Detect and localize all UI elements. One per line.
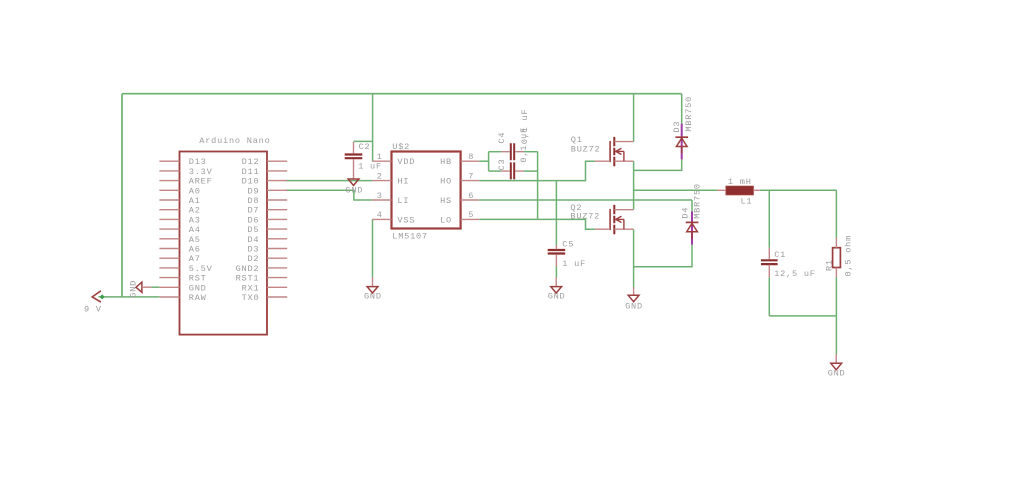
- pin 6 HS stub: [461, 199, 480, 201]
- wire L1 to output node: [760, 189, 837, 191]
- pin 4 VSS stub: [372, 218, 391, 220]
- capacitor C2: [345, 142, 363, 179]
- pin 1 VDD stub: [372, 160, 391, 162]
- svg-text:7: 7: [468, 171, 474, 181]
- svg-text:D3: D3: [672, 121, 682, 133]
- wire 9V top rail: [122, 93, 682, 95]
- wire D10 to HI: [285, 180, 372, 182]
- wire HS net: [479, 199, 692, 201]
- svg-text:0,5 ohm: 0,5 ohm: [844, 235, 854, 277]
- wire D3 cathode drop: [681, 94, 683, 124]
- wire Q1 drain from rail: [633, 94, 635, 142]
- svg-text:VDD: VDD: [397, 157, 415, 167]
- wire Q1 source to Q2 drain: [633, 161, 635, 210]
- wire C4 left lead: [489, 151, 502, 153]
- svg-text:HO: HO: [440, 177, 452, 187]
- pin 7 HO stub: [461, 180, 480, 182]
- wire VDD drop from rail: [372, 94, 374, 162]
- pin 3 LI stub: [372, 199, 391, 201]
- wire LO net to Q2 gate: [479, 219, 595, 229]
- wire switch node to L1: [634, 189, 718, 191]
- wire bootstrap cap left vertical: [488, 152, 490, 171]
- ground below VSS pin: [367, 277, 378, 293]
- wire C3 left lead: [489, 170, 502, 172]
- svg-text:1: 1: [377, 152, 383, 162]
- svg-text:GND: GND: [828, 368, 846, 378]
- wire D9 to LI jog: [285, 190, 372, 200]
- svg-text:9 V: 9 V: [84, 305, 102, 315]
- svg-text:12,5 uF: 12,5 uF: [774, 269, 816, 279]
- svg-text:1 mH: 1 mH: [728, 177, 752, 187]
- wire R1 top branch: [835, 190, 837, 238]
- wire D4 anode link: [634, 245, 692, 267]
- inductor L1: [717, 186, 760, 195]
- wire C5 branch vertical: [555, 181, 557, 246]
- svg-text:D133.3VAREFA0A1A2A3A4A5A6A75.5: D133.3VAREFA0A1A2A3A4A5A6A75.5VRSTGNDRAW: [189, 157, 213, 303]
- ground below C5: [551, 277, 562, 293]
- wire C4 right lead: [524, 151, 538, 153]
- svg-text:MBR750: MBR750: [684, 96, 694, 132]
- svg-text:6: 6: [468, 191, 474, 201]
- wire R1 bottom to ground: [835, 277, 837, 354]
- svg-text:GND: GND: [625, 302, 643, 312]
- svg-text:C3: C3: [497, 159, 507, 171]
- svg-text:Q1: Q1: [571, 135, 583, 145]
- ground below C2: [348, 179, 359, 185]
- svg-text:LO: LO: [440, 215, 452, 225]
- ground below Q2: [628, 287, 639, 302]
- pin 2 HI stub: [372, 180, 391, 182]
- svg-text:BUZ72: BUZ72: [570, 212, 600, 222]
- ground below R1 and C1: [831, 354, 842, 370]
- Arduino Nano left pin stubs D13..RAW: [159, 161, 179, 297]
- diode D4 MBR750: [686, 211, 699, 244]
- svg-text:C1: C1: [774, 250, 786, 260]
- svg-text:GND: GND: [129, 280, 139, 298]
- svg-text:D4: D4: [681, 207, 691, 219]
- svg-text:2: 2: [377, 171, 383, 181]
- svg-text:U$2: U$2: [392, 142, 410, 152]
- svg-text:BUZ72: BUZ72: [571, 145, 601, 155]
- wire D4 cathode drop: [691, 200, 693, 211]
- svg-text:D12D11D10D9D8D7D6D5D4D3D2GND2R: D12D11D10D9D8D7D6D5D4D3D2GND2RST1RX1TX0: [236, 157, 260, 303]
- wire GND pin link: [151, 286, 159, 288]
- wire HB to bootstrap caps: [479, 160, 488, 162]
- wire D3 anode link: [634, 159, 682, 170]
- svg-text:HB: HB: [440, 157, 452, 167]
- transistor Q2 BUZ72: [595, 205, 634, 234]
- transistor Q1 BUZ72: [595, 137, 634, 166]
- wire C1 bottom: [768, 277, 770, 316]
- svg-text:HI: HI: [397, 177, 409, 187]
- svg-text:8: 8: [468, 152, 474, 162]
- wire VSS to ground: [372, 219, 374, 277]
- svg-text:LM5107: LM5107: [392, 231, 428, 241]
- wire C2 top link: [354, 140, 373, 142]
- wire output bottom link: [769, 315, 836, 317]
- svg-text:5: 5: [468, 210, 474, 220]
- svg-text:GND: GND: [548, 292, 566, 302]
- wire HO net to Q1 gate: [479, 161, 595, 180]
- pin 8 HB stub: [461, 160, 480, 162]
- svg-text:MBR750: MBR750: [692, 183, 702, 219]
- svg-text:GND: GND: [364, 292, 382, 302]
- ground at Arduino GND pin (rotated): [136, 282, 151, 292]
- svg-text:C4: C4: [497, 132, 507, 144]
- svg-text:C2: C2: [359, 142, 371, 152]
- part Arduino Nano U1: [180, 152, 268, 335]
- Arduino Nano right pin stubs D12..TX0: [267, 161, 287, 297]
- svg-text:GND: GND: [345, 186, 363, 196]
- svg-text:0,1 uF: 0,1 uF: [519, 127, 529, 163]
- wire C1 top branch: [768, 190, 770, 248]
- svg-text:R1: R1: [825, 259, 835, 271]
- capacitor C3: [501, 162, 524, 179]
- svg-text:3: 3: [377, 191, 383, 201]
- node 9V junction dot: [100, 294, 105, 299]
- pin 5 LO stub: [461, 218, 480, 220]
- svg-text:HS: HS: [440, 196, 452, 206]
- capacitor C1: [761, 248, 778, 278]
- svg-text:Arduino Nano: Arduino Nano: [199, 136, 270, 146]
- supply arrow 9 V: [92, 291, 101, 302]
- wire bootstrap cap right vertical: [537, 152, 539, 220]
- wire C3 right lead: [524, 170, 538, 172]
- svg-text:L1: L1: [741, 196, 753, 206]
- op-amp/driver IC U$2 LM5107: [392, 152, 461, 229]
- wire 9V left vertical: [121, 94, 123, 297]
- svg-text:4: 4: [377, 210, 383, 220]
- svg-text:1 uF: 1 uF: [562, 259, 586, 269]
- resistor R1: [833, 238, 841, 278]
- wire 9V supply to RAW pin: [99, 296, 160, 298]
- diode D3 MBR750: [675, 124, 688, 160]
- capacitor C4: [501, 143, 524, 160]
- svg-text:1 uF: 1 uF: [358, 162, 382, 172]
- capacitor C5: [548, 245, 566, 266]
- svg-text:C5: C5: [562, 239, 574, 249]
- wire C5 bottom to ground: [555, 266, 557, 277]
- svg-text:VSS: VSS: [397, 215, 415, 225]
- svg-text:LI: LI: [397, 196, 409, 206]
- wire Q2 source to ground: [633, 229, 635, 287]
